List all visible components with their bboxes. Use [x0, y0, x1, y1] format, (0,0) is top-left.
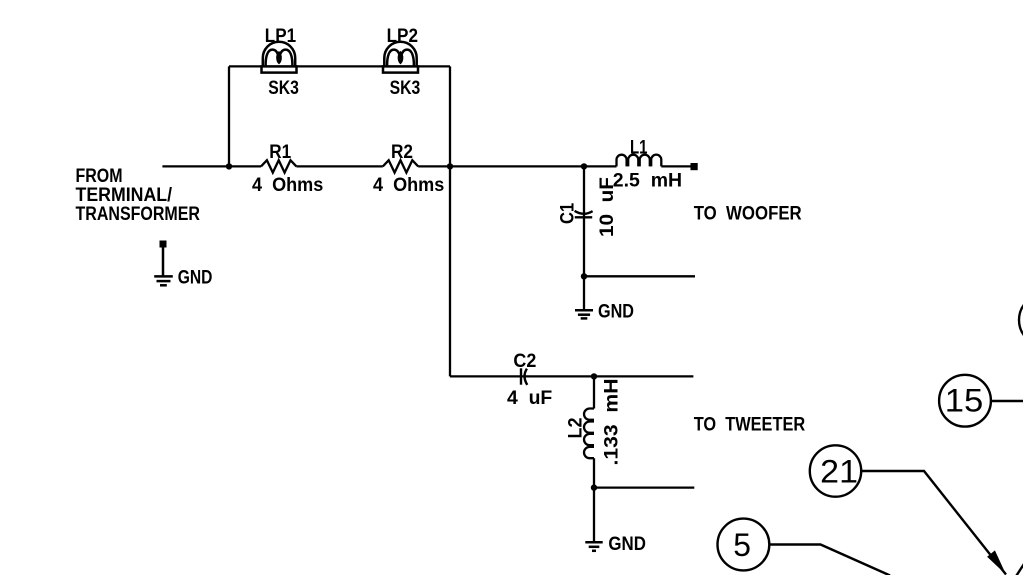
- svg-text:10 uF: 10 uF: [596, 177, 618, 237]
- svg-text:GND: GND: [598, 301, 634, 323]
- balloon callout 21: [810, 445, 861, 496]
- lamp LP1: [262, 42, 297, 73]
- node junction dot at R2 output: [447, 163, 453, 169]
- wire from L1 to output terminal: [661, 165, 690, 167]
- ground symbol woofer: [575, 310, 593, 318]
- wire left vertical to lamp rail: [228, 66, 230, 166]
- svg-text:.133 mH: .133 mH: [601, 379, 623, 466]
- svg-text:SK3: SK3: [268, 77, 299, 99]
- resistor R1: [261, 160, 296, 172]
- lamp LP2: [383, 42, 418, 73]
- node junction dot at L2 bottom: [591, 484, 597, 490]
- node label FROM TERMINAL/TRANSFORMER: [76, 165, 201, 225]
- svg-text:GND: GND: [178, 266, 213, 288]
- svg-text:TO WOOFER: TO WOOFER: [694, 203, 802, 225]
- node junction dot at C1 top: [581, 163, 587, 169]
- wire woofer return rail: [584, 275, 695, 277]
- ground symbol tweeter: [585, 542, 602, 551]
- balloon callout partial top right: [1019, 294, 1023, 346]
- inductor L1: [617, 155, 662, 167]
- svg-text:GND: GND: [608, 533, 646, 555]
- inductor L2: [584, 409, 594, 459]
- leader line fragment bottom right corner: [1015, 556, 1023, 575]
- terminal square at woofer output: [691, 163, 698, 170]
- svg-text:LP1: LP1: [265, 25, 296, 47]
- ground symbol left: [154, 248, 173, 286]
- wire between LP1 and LP2: [297, 65, 384, 67]
- node junction dot at input rail left: [226, 163, 232, 169]
- wire tweeter rail through C2: [450, 375, 693, 377]
- svg-text:SK3: SK3: [390, 77, 421, 99]
- wire L2 branch upper segment: [593, 376, 595, 408]
- wire C1 branch vertical: [583, 166, 585, 310]
- svg-text:2.5 mH: 2.5 mH: [613, 169, 682, 191]
- svg-text:C1: C1: [557, 203, 579, 224]
- ground terminal square left: [160, 241, 167, 248]
- wire main input rail left segment: [162, 165, 261, 167]
- svg-text:15: 15: [945, 383, 984, 419]
- svg-text:5: 5: [733, 527, 751, 563]
- wire from R2 to L1: [418, 165, 616, 167]
- leader line from balloon 15: [991, 400, 1023, 402]
- svg-text:TRANSFORMER: TRANSFORMER: [76, 203, 201, 225]
- balloon callout 15: [939, 375, 991, 427]
- svg-text:4 Ohms: 4 Ohms: [252, 174, 323, 196]
- balloon callout 5: [718, 519, 770, 571]
- svg-text:L2: L2: [565, 417, 587, 438]
- node junction dot at L2 top: [591, 373, 597, 379]
- wire right vertical from lamp rail to tweeter rail: [449, 66, 451, 376]
- arrowhead of balloon 21 leader: [987, 550, 1006, 574]
- resistor R2: [383, 160, 418, 172]
- svg-text:4 Ohms: 4 Ohms: [373, 174, 444, 196]
- capacitor C1: [575, 211, 593, 217]
- svg-text:TO TWEETER: TO TWEETER: [694, 413, 806, 435]
- capacitor C2: [521, 368, 527, 385]
- svg-text:21: 21: [820, 454, 858, 490]
- wire from LP2 to right vertical: [418, 65, 450, 67]
- leader line from balloon 21: [861, 471, 1006, 575]
- wire top lamp rail left segment: [229, 65, 262, 67]
- wire between R1 and R2: [296, 165, 382, 167]
- leader line from balloon 5: [769, 545, 890, 575]
- node junction dot at C1 bottom: [581, 273, 587, 279]
- svg-text:4 uF: 4 uF: [507, 387, 552, 409]
- svg-text:C2: C2: [513, 350, 536, 372]
- svg-text:LP2: LP2: [387, 25, 419, 47]
- wire L2 branch lower segment: [593, 458, 595, 542]
- svg-text:L1: L1: [630, 137, 648, 159]
- svg-text:R1: R1: [269, 141, 291, 163]
- wire tweeter return rail: [594, 486, 694, 488]
- svg-text:R2: R2: [391, 141, 413, 163]
